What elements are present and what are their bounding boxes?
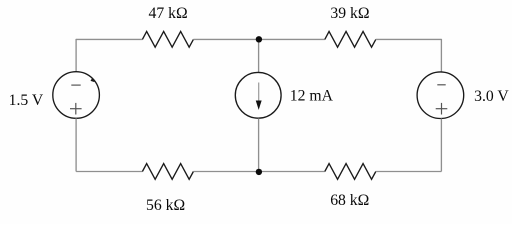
resistor 39 kohm (top right) — [325, 31, 376, 47]
resistor 56 kohm (bottom left) — [142, 164, 193, 180]
svg-text:47 kΩ: 47 kΩ — [149, 5, 188, 22]
label 1.5 V — [9, 92, 44, 109]
wire center rail lower — [258, 118, 260, 171]
label 3.0 V — [474, 88, 509, 105]
svg-text:1.5 V: 1.5 V — [9, 92, 44, 109]
wire right rail lower — [440, 119, 442, 172]
label 39 kΩ — [330, 5, 369, 22]
wire top-left horizontal — [76, 38, 142, 40]
voltage source 1.5 V — [53, 72, 100, 119]
wire left rail upper — [75, 39, 77, 72]
wire top-middle horizontal — [193, 38, 324, 40]
wire bottom-middle horizontal — [193, 171, 324, 173]
wire bottom-right horizontal — [376, 171, 442, 173]
voltage source 3.0 V — [417, 72, 464, 119]
current source 12 mA — [235, 72, 281, 118]
wire bottom-left horizontal — [76, 171, 142, 173]
resistor 47 kohm (top left) — [142, 31, 193, 47]
svg-text:56 kΩ: 56 kΩ — [146, 197, 185, 214]
label 56 kΩ — [146, 197, 185, 214]
label 68 kΩ — [330, 192, 369, 209]
svg-text:68 kΩ: 68 kΩ — [330, 192, 369, 209]
svg-text:12 mA: 12 mA — [290, 88, 334, 105]
svg-text:3.0 V: 3.0 V — [474, 88, 509, 105]
wire right rail upper — [440, 39, 442, 72]
node top-center junction dot — [256, 36, 262, 42]
label 47 kΩ — [149, 5, 188, 22]
resistor 68 kohm (bottom right) — [325, 164, 376, 180]
svg-text:39 kΩ: 39 kΩ — [330, 5, 369, 22]
wire top-right horizontal — [376, 38, 442, 40]
wire center rail upper — [258, 39, 260, 72]
label 12 mA — [290, 88, 334, 105]
wire left rail lower — [75, 118, 77, 171]
node bottom-center junction dot — [256, 169, 262, 175]
